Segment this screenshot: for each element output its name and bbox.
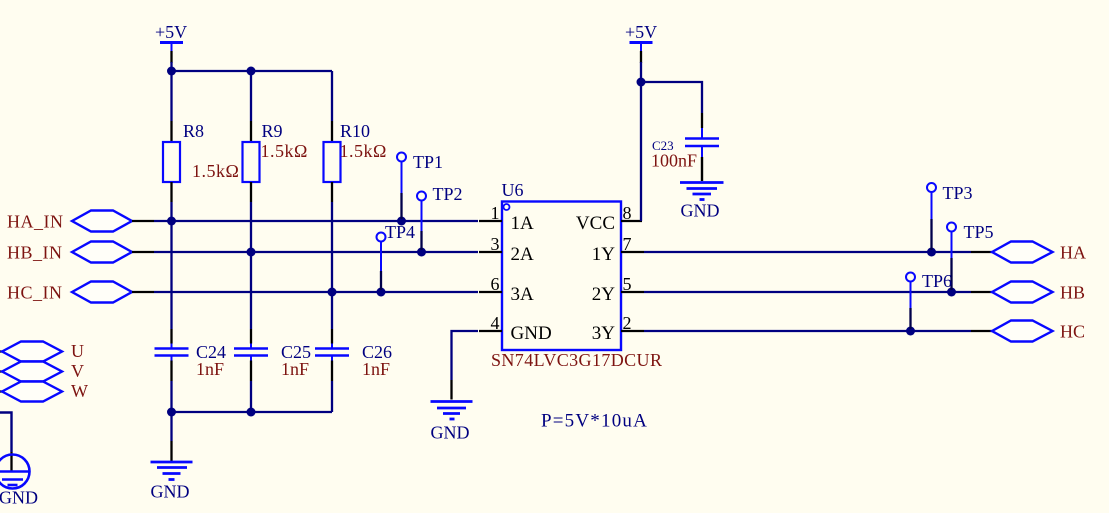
svg-text:HB: HB [1060,283,1085,303]
pin 2 [621,330,644,332]
pin earth stub [10,452,12,471]
svg-text:3Y: 3Y [592,323,616,344]
port U [0,341,84,362]
resistor R9 [243,142,260,182]
wire rail corner to R10 [331,71,333,121]
svg-text:P=5V*10uA: P=5V*10uA [541,411,648,432]
svg-text:TP5: TP5 [964,222,994,242]
junction row1-R8 [167,217,176,226]
wire row 1Y to HA port [644,251,971,253]
ground symbol (U6) [431,402,473,443]
svg-text:TP3: TP3 [943,183,973,203]
ground symbol (bus) [151,462,193,502]
port stub HC [971,330,992,332]
port HC_IN [7,282,154,303]
pin R9 top [250,121,252,142]
junction row3-TP4 [377,288,386,297]
wire row 2Y to HB port [644,291,971,293]
svg-text:R10: R10 [340,121,370,141]
wire to earth ground [0,413,12,453]
svg-text:HB_IN: HB_IN [7,243,63,263]
pin 3 [479,251,502,253]
wire row1 HA_IN to pin 1A [154,220,478,222]
wire R9 column down to C25 [250,202,252,329]
wire +5V to junction [640,62,642,82]
svg-text:V: V [71,361,84,381]
svg-text:W: W [71,381,88,401]
testpoint TP3 [927,183,973,250]
svg-text:3: 3 [491,234,500,254]
junction +5V node [637,78,646,87]
pin 4 [479,330,502,332]
svg-text:HC: HC [1060,322,1085,342]
svg-text:7: 7 [623,234,632,254]
svg-text:2: 2 [623,313,632,333]
wire R8 top [170,71,172,121]
wire bus down [170,412,172,441]
wire C26 bottom [331,381,333,412]
svg-text:3A: 3A [511,284,535,305]
junction bus-C24 [167,408,176,417]
wire top rail [172,70,333,72]
svg-text:GND: GND [511,323,552,344]
svg-text:2Y: 2Y [592,284,616,305]
wire R8 column down to C24 [170,202,172,329]
svg-text:TP4: TP4 [385,222,415,242]
op-amp U6 body [491,180,662,370]
svg-text:100nF: 100nF [651,151,697,171]
svg-text:TP1: TP1 [413,152,443,172]
svg-text:5: 5 [623,274,632,294]
svg-text:HA: HA [1060,243,1086,263]
ground symbol (C23) [680,183,724,221]
wire row3 HC_IN to pin 3A [154,291,478,293]
junction 2Y-TP5 [947,288,956,297]
wire down to VCC pin 8 [640,82,642,221]
svg-text:1: 1 [491,203,500,223]
junction 3Y-TP6 [906,327,915,336]
svg-text:U: U [71,341,84,361]
junction row1-TP1 [397,217,406,226]
pin R10 bottom [331,182,333,202]
junction row2-TP2 [417,248,426,257]
svg-text:R8: R8 [183,121,204,141]
svg-text:1A: 1A [511,213,535,234]
svg-text:1nF: 1nF [362,359,390,379]
testpoint TP1 [397,152,443,219]
junction bus-C25 [247,408,256,417]
junction 1Y-TP3 [927,248,936,257]
junction rail-R9 [247,67,256,76]
capacitor C26 [315,329,392,381]
wire R9 top [250,71,252,121]
pin 6 [479,291,502,293]
svg-text:GND: GND [0,488,38,508]
svg-text:U6: U6 [502,180,524,200]
junction row3-R10 [328,288,337,297]
svg-text:1nF: 1nF [196,359,224,379]
wire gnd bus under capacitors [172,411,333,413]
svg-text:SN74LVC3G17DCUR: SN74LVC3G17DCUR [491,350,662,370]
testpoint TP6 [906,271,952,329]
svg-text:1Y: 1Y [592,244,616,265]
testpoint TP5 [947,222,994,290]
port HC [992,321,1085,342]
svg-text:TP2: TP2 [433,184,463,204]
port HB [992,282,1085,303]
svg-text:VCC: VCC [576,213,615,234]
wire row 3Y to HC port [644,330,971,332]
testpoint TP4 [377,222,416,290]
svg-text:8: 8 [623,203,632,223]
port stub HA [971,251,992,253]
port HA_IN [7,211,154,232]
power +5V (left) [155,22,187,63]
svg-text:1.5kΩ: 1.5kΩ [261,141,308,161]
svg-text:1.5kΩ: 1.5kΩ [340,141,387,161]
capacitor C24 [155,329,227,381]
svg-text:TP6: TP6 [922,271,952,291]
wire pin4 to gnd [452,331,479,380]
wire R10 column down to C26 [331,202,333,329]
svg-text:+5V: +5V [625,22,657,42]
svg-text:R9: R9 [262,121,283,141]
port HA [992,242,1086,263]
port V [0,361,84,382]
pin 8 [621,220,642,222]
svg-text:6: 6 [491,274,500,294]
resistor R8 [163,142,180,182]
wire C25 bottom [250,381,252,412]
junction rail-R8 [167,67,176,76]
svg-text:2A: 2A [511,244,535,265]
svg-text:+5V: +5V [155,22,187,42]
junction row2-R9 [247,248,256,257]
pin gnd stub [170,441,172,461]
resistor R10 [324,142,341,182]
power +5V (right) [625,22,657,63]
capacitor C23 [651,113,719,181]
wire C24 bottom [170,381,172,412]
port W [0,381,88,402]
port stub HB [971,291,992,293]
svg-text:1.5kΩ: 1.5kΩ [192,161,239,181]
pin R9 bottom [250,182,252,202]
svg-text:4: 4 [491,313,500,333]
svg-text:HC_IN: HC_IN [7,283,63,303]
wire to C23 [641,82,702,113]
pin 5 [621,291,644,293]
svg-text:GND: GND [431,423,470,443]
svg-text:1nF: 1nF [281,359,309,379]
pin R8 top [170,121,172,142]
svg-text:GND: GND [681,201,720,221]
capacitor C25 [234,329,311,381]
pin 7 [621,251,644,253]
earth ground symbol [0,455,38,508]
wire row2 HB_IN to pin 2A [154,251,478,253]
svg-text:HA_IN: HA_IN [7,212,64,232]
testpoint TP2 [417,184,463,250]
svg-text:GND: GND [151,482,190,502]
pin R8 bottom [170,182,172,202]
pin gnd stub [450,380,452,400]
pin 1 [479,220,502,222]
pin R10 top [331,121,333,142]
port HB_IN [7,242,154,263]
wire +5V stub down to rail [170,62,172,71]
